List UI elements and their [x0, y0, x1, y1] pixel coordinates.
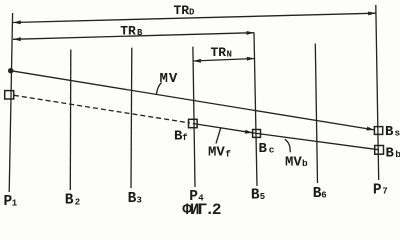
svg-text:c: c: [269, 145, 275, 156]
dimension line TRb: [13, 33, 254, 40]
arrowhead TRn right: [247, 57, 255, 61]
vertical line P7: [376, 5, 379, 180]
svg-text:b: b: [395, 149, 400, 160]
svg-text:N: N: [227, 49, 232, 59]
svg-text:1: 1: [12, 198, 18, 208]
dimension line TRd: [13, 13, 376, 22]
start dot on P1: [8, 68, 13, 73]
arrowhead MVf at Bc: [245, 130, 253, 134]
vertical line P1: [9, 13, 12, 192]
svg-text:B: B: [386, 146, 395, 162]
vertical line P4: [193, 47, 195, 187]
vertical line B6: [315, 44, 317, 184]
vertical line B2: [69, 50, 72, 191]
square Bc: [253, 130, 261, 138]
arrowhead TRd left: [13, 20, 21, 24]
svg-text:TR: TR: [211, 45, 227, 60]
svg-text:D: D: [189, 7, 195, 17]
svg-text:MV: MV: [285, 154, 302, 170]
svg-text:f: f: [225, 148, 231, 159]
svg-text:MV: MV: [160, 71, 178, 87]
motion-vector line MVf / MVb: [193, 124, 379, 150]
arrowhead TRd right: [368, 11, 376, 15]
svg-text:B: B: [251, 188, 260, 204]
svg-text:MV: MV: [208, 145, 225, 161]
svg-text:TR: TR: [120, 24, 136, 39]
svg-text:B: B: [259, 141, 268, 157]
square Bb: [375, 146, 384, 155]
leader line for MVf label: [216, 128, 221, 144]
svg-text:3: 3: [137, 196, 142, 206]
square Bs: [374, 127, 382, 135]
B-frame square (left, on P1): [5, 91, 14, 99]
svg-text:5: 5: [260, 192, 265, 202]
vertical line B3: [130, 48, 133, 188]
svg-text:B: B: [385, 124, 394, 140]
arrowhead TRb left: [13, 37, 21, 41]
leader line for MVb label: [285, 139, 291, 152]
arrowhead MV at Bs: [366, 127, 374, 131]
svg-text:TR: TR: [174, 3, 190, 18]
svg-text:b: b: [302, 158, 308, 169]
svg-text:B: B: [137, 28, 143, 38]
square Bf: [189, 119, 198, 127]
dimension line TRn: [193, 59, 255, 62]
svg-text:f: f: [182, 133, 187, 143]
dashed prediction line: [14, 95, 190, 123]
leader line for MV label: [156, 83, 161, 96]
motion-vector line MV: [11, 71, 375, 130]
svg-text:P: P: [373, 182, 382, 198]
svg-text:B: B: [65, 193, 74, 209]
svg-text:7: 7: [382, 187, 387, 197]
svg-text:6: 6: [321, 191, 326, 201]
vertical line B5: [254, 33, 257, 186]
arrowhead TRn left: [193, 59, 201, 63]
svg-text:B: B: [128, 191, 137, 207]
svg-text:ФИГ. 2: ФИГ. 2: [182, 201, 221, 218]
arrowhead TRb right: [247, 31, 255, 35]
svg-text:2: 2: [75, 197, 80, 207]
svg-text:s: s: [395, 128, 400, 139]
